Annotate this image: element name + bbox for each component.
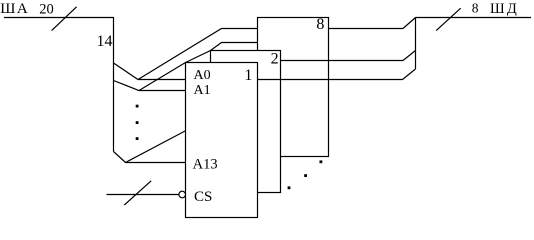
bundle diagonal from A13 tap to back chips: [126, 131, 187, 163]
data bus ШД wire: [416, 17, 532, 19]
memory chip D2 (middle): [211, 51, 281, 193]
data bus vertical collector: [415, 18, 417, 70]
output wire of chip 1: [258, 69, 416, 80]
svg-text:8: 8: [316, 16, 324, 33]
CS inverter circle: [179, 191, 186, 198]
svg-text:2: 2: [271, 51, 279, 68]
address bus ША wire (top-left horizontal + vertical drop): [4, 18, 114, 152]
svg-text:1: 1: [244, 67, 252, 84]
bus width slash 20: [52, 7, 77, 31]
svg-text:A0: A0: [194, 68, 211, 83]
wire tap to A1: [114, 81, 187, 91]
ellipsis dots (back chips): [320, 160, 323, 163]
svg-text:ША: ША: [0, 1, 29, 17]
ellipsis dots (address taps): [136, 105, 323, 190]
svg-text:A1: A1: [194, 83, 211, 98]
memory chip D1 (front): [186, 63, 258, 218]
wire tap to A13: [114, 152, 187, 163]
address bundle line into back chips (lower): [139, 43, 258, 91]
svg-text:A13: A13: [193, 157, 218, 173]
data bus slash 8: [436, 8, 461, 30]
svg-text:20: 20: [39, 1, 54, 17]
output wire of chip 8: [329, 18, 416, 29]
svg-text:14: 14: [97, 33, 113, 50]
wire tap to A0: [114, 63, 187, 80]
svg-text:ШД: ШД: [490, 1, 519, 17]
svg-text:8: 8: [472, 1, 479, 16]
svg-text:CS: CS: [194, 189, 212, 205]
memory chip D8 (back): [258, 18, 329, 157]
output wire of chip 2: [281, 51, 416, 61]
CS input wire: [107, 194, 180, 196]
address bundle line into chip 8 (upper): [138, 29, 258, 80]
CS slash: [124, 181, 151, 205]
